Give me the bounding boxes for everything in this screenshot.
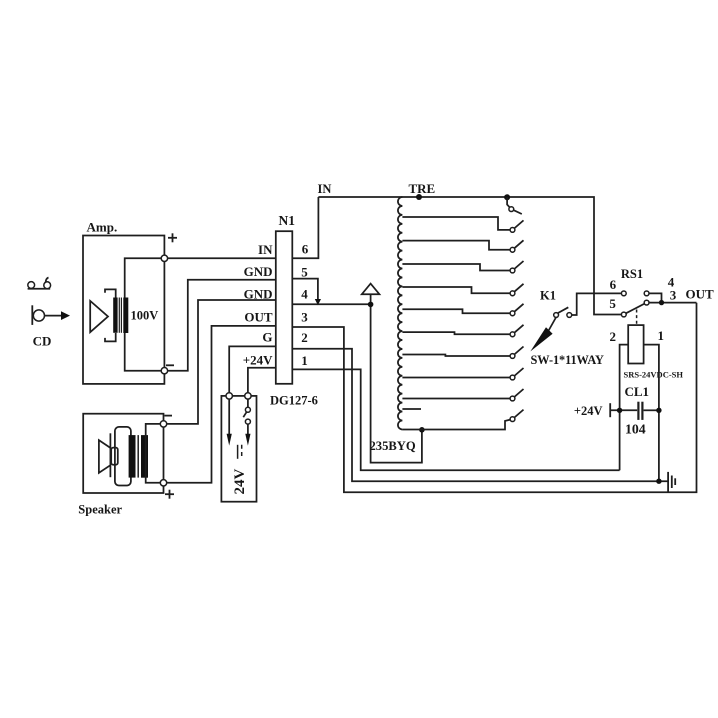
svg-text:GND: GND [244, 286, 273, 301]
svg-text:2: 2 [301, 330, 308, 345]
svg-text:2: 2 [610, 329, 617, 344]
svg-text:+24V: +24V [243, 353, 273, 368]
svg-text:CD: CD [33, 333, 52, 348]
svg-text:5: 5 [609, 296, 616, 311]
svg-text:GND: GND [244, 264, 273, 279]
svg-text:K1: K1 [540, 289, 556, 303]
svg-text:IN: IN [318, 182, 332, 196]
svg-text:OUT: OUT [686, 287, 715, 302]
svg-text:Amp.: Amp. [87, 220, 118, 235]
svg-text:100V: 100V [131, 308, 159, 322]
svg-text:3: 3 [670, 288, 677, 303]
svg-text:IN: IN [258, 242, 273, 257]
svg-text:6: 6 [610, 277, 617, 292]
svg-text:+24V: +24V [574, 404, 603, 418]
svg-text:104: 104 [625, 422, 646, 437]
svg-text:CL1: CL1 [625, 384, 650, 399]
svg-text:SRS-24VDC-SH: SRS-24VDC-SH [624, 369, 684, 379]
svg-text:SW-1*11WAY: SW-1*11WAY [531, 353, 604, 367]
svg-text:N1: N1 [279, 213, 296, 228]
svg-text:G: G [262, 330, 272, 345]
svg-text:1: 1 [658, 328, 665, 343]
svg-text:OUT: OUT [244, 310, 273, 325]
svg-text:6: 6 [302, 242, 309, 257]
svg-text:4: 4 [301, 287, 308, 302]
svg-text:Speaker: Speaker [78, 503, 122, 517]
svg-text:1: 1 [301, 353, 308, 368]
svg-text:5: 5 [301, 265, 308, 280]
svg-text:RS1: RS1 [621, 267, 643, 281]
svg-text:24V: 24V [232, 469, 248, 495]
svg-text:DG127-6: DG127-6 [270, 393, 318, 407]
svg-text:235BYQ: 235BYQ [370, 439, 416, 453]
svg-text:3: 3 [301, 310, 308, 325]
svg-text:TRE: TRE [409, 181, 436, 196]
